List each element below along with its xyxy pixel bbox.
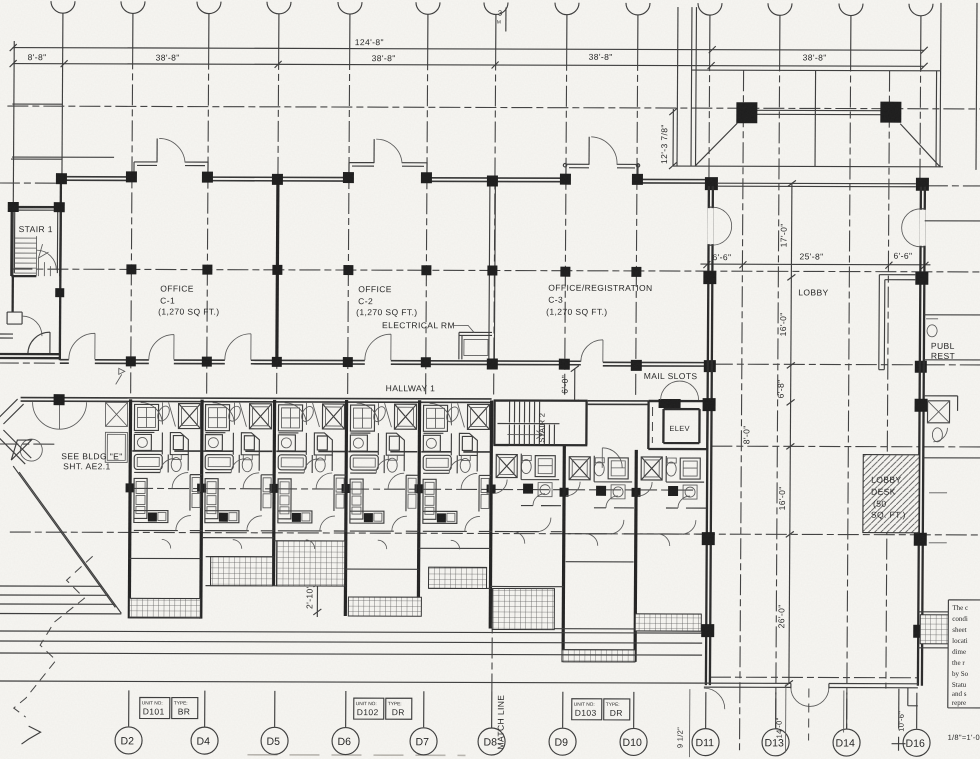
- canopy outline: [691, 7, 941, 167]
- stair 2 block: [493, 399, 587, 445]
- canopy diagonals: [695, 123, 940, 167]
- building layer : offices / top wall / stair1 / hallway: [0, 135, 929, 395]
- canopy beam between columns: [756, 110, 881, 114]
- deck bay8: [635, 614, 701, 631]
- lobby east wall: [918, 187, 925, 686]
- elevator block: [648, 381, 707, 450]
- lobby west wall: [706, 186, 713, 685]
- west wall of building: [60, 176, 61, 360]
- interior column row y=269: [126, 264, 641, 277]
- lobby south wall: [704, 683, 918, 688]
- deck bay5: [428, 567, 486, 588]
- top cut bubbles at each grid line: [51, 1, 933, 16]
- lobby layer : canopy, lobby, desk, restrooms: [560, 2, 980, 741]
- door below elevator corridor: [602, 448, 622, 468]
- unit demising walls: [129, 399, 637, 662]
- matchline flag near D8 top: [497, 7, 506, 31]
- concierge wall J: [879, 275, 916, 370]
- office demising wall C-2/C-3: [489, 181, 496, 363]
- unit living/patio step walls: [129, 537, 702, 662]
- lobby top dim 6'-6" 25'-8" 6'-6": [700, 263, 930, 266]
- bubble leader stems: [129, 690, 917, 728]
- deck D101 bed: [210, 557, 272, 586]
- planter face line top-left: [11, 158, 62, 160]
- unit tag D103: [572, 699, 630, 720]
- left angled unit (bldg E transition): [0, 394, 128, 614]
- north wall column row y=178: [55, 171, 929, 300]
- deck bay3: [276, 541, 344, 586]
- SE corner notch: [908, 688, 918, 706]
- drive lines above canopy: [677, 2, 977, 170]
- hallway south wall: [21, 398, 649, 405]
- electrical room: [459, 332, 492, 359]
- bottom annotation layer : bubbles, tags, notes: [115, 597, 980, 758]
- unit tag D102: [354, 698, 412, 719]
- hallway column row y=357: [126, 356, 927, 372]
- stair2 dim 6'-0": [571, 366, 579, 406]
- deck bay6: [492, 588, 554, 629]
- deck dim 2'-10": [313, 581, 321, 617]
- vertical grid centerlines: [129, 48, 921, 752]
- public restroom right: [923, 221, 980, 543]
- stair 1 block: [0, 202, 65, 354]
- grid stems from bubbles to dim row: [63, 13, 921, 51]
- deck D103: [562, 650, 635, 662]
- legal note box: [948, 600, 980, 708]
- treads: [14, 236, 36, 276]
- door at lobby SW corner: [704, 688, 725, 709]
- canopy dim 12'-3 7/8": [669, 108, 677, 169]
- horizontal grid centerlines: [0, 106, 980, 678]
- vestibule3 jamb dots: [563, 163, 566, 166]
- dim row 2 : 8'-8" / 38'-8" x4: [13, 64, 924, 67]
- mid-unit column row: [126, 483, 641, 497]
- right vertical dim chain at x=793: [789, 183, 792, 683]
- grid bubbles: [115, 727, 930, 756]
- dim row 1 : 124'-8": [13, 48, 924, 51]
- unit tag D101: [140, 697, 198, 718]
- scan smudge bottom: [247, 754, 465, 757]
- sidewalk lines bottom: [0, 631, 704, 683]
- right edge lower deck: [918, 612, 980, 648]
- lobby entry double doors: [791, 683, 829, 706]
- keynote flag: [116, 368, 125, 384]
- canopy bottom edge: [673, 165, 943, 168]
- north wall segments (double): [60, 177, 711, 183]
- deck D102: [348, 597, 421, 616]
- canopy columns: [736, 102, 757, 123]
- unit entry doors from hallway: [140, 402, 451, 425]
- property zigzag dashed: [14, 556, 93, 717]
- under-stair wall to exit: [11, 276, 14, 312]
- lobby west double door: [708, 207, 732, 245]
- hallway office doors (swing up): [69, 333, 603, 362]
- lobby east double door: [902, 209, 926, 247]
- left boundary lines: [61, 47, 64, 176]
- west exterior wall band: [0, 354, 60, 358]
- lobby north window wall: [718, 183, 916, 187]
- entry vestibule office C-1: [134, 138, 208, 176]
- entry vestibule office C-3: [566, 137, 638, 179]
- dashed line below entry: [808, 688, 810, 740]
- office demising wall C-1/C-2 (thick): [277, 179, 278, 361]
- hallway north wall (double) with door openings: [60, 360, 710, 366]
- lobby desk hatched: [863, 455, 919, 533]
- units layer : residential units D101-D103, stair2, elevator: [0, 354, 708, 756]
- entry vestibule office C-2: [349, 139, 427, 177]
- lobby wall columns: [701, 271, 928, 638]
- deck D101: [129, 598, 200, 617]
